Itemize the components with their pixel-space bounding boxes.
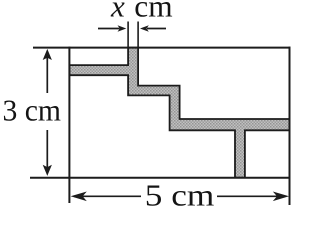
rectangle bottom edge (30, 177, 291, 179)
3 cm arrowhead up (43, 49, 52, 60)
rectangle left edge (68, 47, 70, 203)
x cm left arrow (98, 28, 120, 30)
3 cm arrowhead down (43, 165, 52, 176)
rectangle top edge (33, 47, 291, 49)
rectangle right edge (289, 47, 291, 205)
5 cm arrowhead right (273, 192, 289, 202)
extension line left (127, 22, 129, 48)
5 cm dimension arrow (horizontal, two segments) (74, 195, 141, 197)
5 cm arrowhead left (71, 192, 87, 202)
3 cm dimension arrow (vertical, two segments) (46, 54, 48, 93)
svg-text:5 cm: 5 cm (145, 177, 215, 212)
svg-text:3 cm: 3 cm (3, 93, 62, 128)
x cm right arrow (147, 28, 166, 30)
extension line right (137, 22, 139, 48)
svg-text:x: x (110, 0, 125, 24)
svg-text:cm: cm (134, 0, 172, 24)
shaded staircase strip (union polygon) (69, 48, 289, 178)
